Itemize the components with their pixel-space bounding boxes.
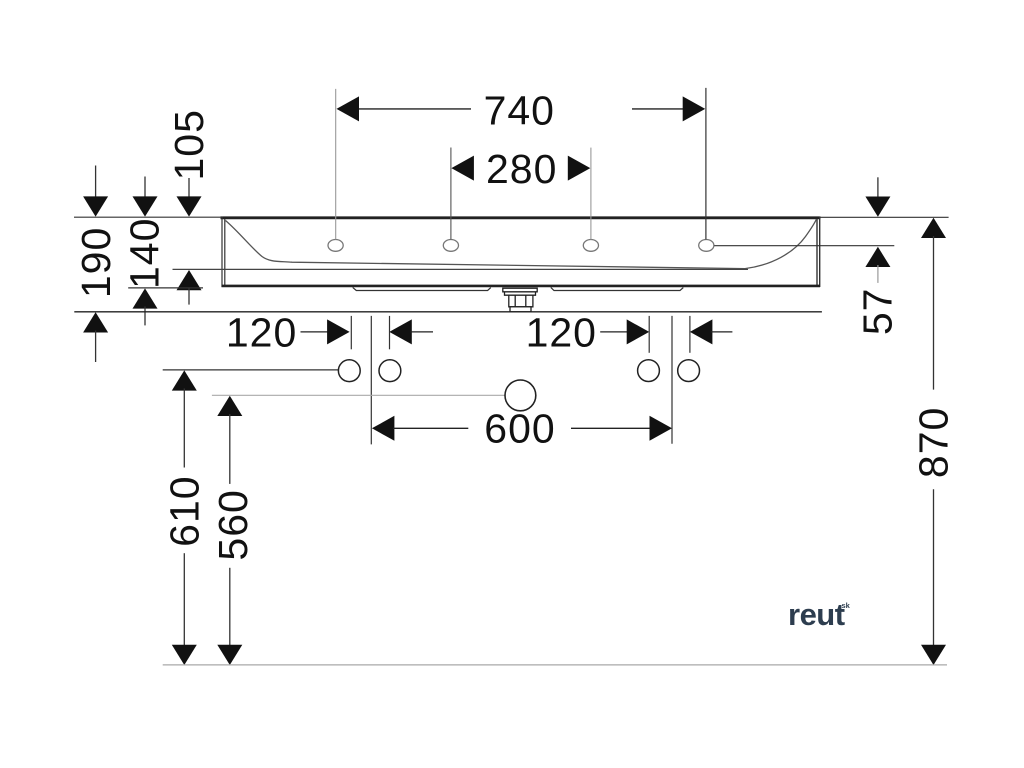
extension line hole2 (450, 148, 452, 240)
dimension 740 (337, 96, 706, 121)
120 second dimension (600, 319, 732, 344)
870 bottom arrow (921, 489, 946, 665)
drain tailpiece foot (510, 307, 531, 312)
faucet hole 4 (699, 240, 714, 252)
105 bottom arrow (177, 270, 202, 305)
reut logo (788, 597, 851, 632)
extension line hole1 (335, 89, 337, 240)
140 bottom arrow (133, 288, 158, 325)
basin inner profile curve (226, 219, 817, 269)
140 top arrow (133, 177, 158, 217)
dimension 600 (372, 416, 672, 441)
faucet hole 1 (328, 240, 343, 252)
leader line wall holes level (163, 369, 339, 371)
wall hole circle 2 (379, 360, 401, 382)
wall hole circle 3 (638, 360, 660, 382)
extension line left hole pair b (389, 316, 391, 349)
centerline left hole pair (370, 316, 372, 445)
centerline right hole pair (671, 316, 673, 444)
105 top arrow (177, 178, 202, 217)
underside recess right panel (551, 287, 684, 290)
basin shelf line (105 level) (173, 268, 749, 270)
svg-text:610: 610 (162, 475, 208, 546)
faucet hole 2 (443, 240, 458, 252)
610 top arrow (172, 370, 197, 467)
svg-text:280: 280 (486, 146, 557, 192)
extension line right hole pair a (648, 316, 650, 353)
leader line drain hole level (212, 394, 505, 396)
190 top arrow (83, 166, 108, 217)
svg-text:120: 120 (226, 309, 297, 355)
wall hole circle 4 (678, 360, 700, 382)
190 bottom arrow (83, 312, 108, 362)
57 top arrow (865, 177, 890, 216)
drain hole circle (505, 380, 536, 411)
sink top deck line (221, 216, 821, 219)
drain nut (509, 295, 533, 307)
floor line (163, 664, 947, 666)
wall hole circle 1 (338, 360, 360, 382)
svg-text:sk: sk (842, 601, 851, 610)
sink right edge double line (817, 217, 820, 288)
57 bottom arrow (865, 247, 890, 283)
610 bottom arrow (172, 553, 197, 665)
sink bottom line (222, 285, 821, 288)
wall line extension left of sink (74, 216, 221, 218)
svg-text:57: 57 (855, 287, 901, 335)
extension line hole4 (705, 88, 707, 240)
svg-text:140: 140 (122, 218, 168, 289)
faucet hole 3 (583, 240, 598, 252)
mounting plane long line (74, 311, 822, 313)
sink left edge double line (222, 217, 225, 288)
dimension 280 (451, 156, 590, 181)
svg-text:870: 870 (910, 407, 956, 478)
hole4 leader line (714, 245, 894, 247)
svg-text:reut: reut (788, 597, 845, 632)
extension line right hole pair b (689, 316, 691, 353)
extension line hole3 (590, 148, 592, 240)
svg-text:105: 105 (166, 109, 212, 180)
underside recess left panel (353, 287, 491, 290)
svg-text:740: 740 (484, 88, 555, 134)
svg-text:190: 190 (73, 227, 119, 298)
svg-text:120: 120 (526, 309, 597, 355)
drain flange (503, 288, 537, 295)
560 bottom arrow (217, 568, 242, 665)
120 first dimension (301, 319, 434, 344)
wall line extension right of sink (821, 216, 949, 218)
svg-text:560: 560 (210, 489, 256, 560)
870 top arrow (921, 218, 946, 390)
140 bottom extension line (128, 287, 203, 289)
560 top arrow (217, 396, 242, 484)
extension line left hole pair a (350, 316, 352, 349)
svg-text:600: 600 (484, 406, 555, 452)
